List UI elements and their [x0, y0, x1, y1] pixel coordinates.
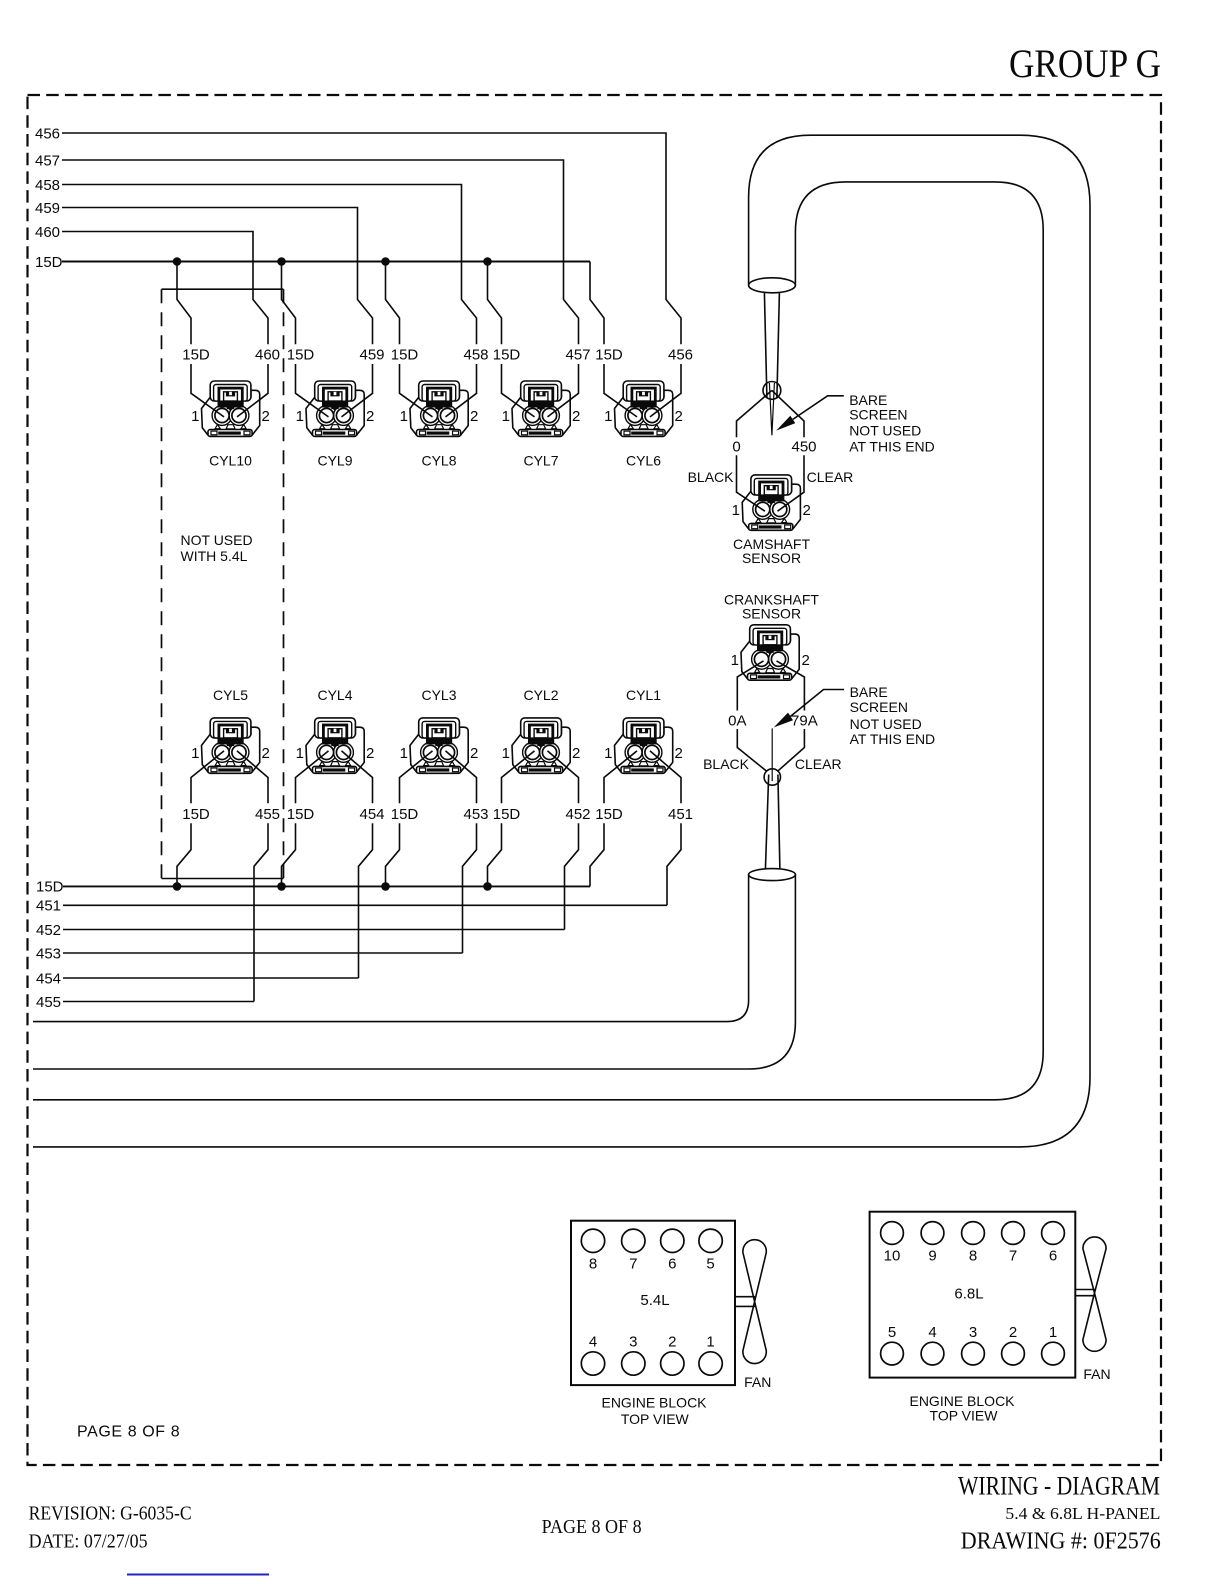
- injector connector CYL1: [604, 687, 683, 774]
- svg-text:452: 452: [565, 806, 590, 823]
- injector connector CYL10: [191, 381, 270, 469]
- svg-text:SCREEN: SCREEN: [850, 699, 908, 715]
- twisted pair from cable end to camshaft splice: [764, 293, 779, 398]
- svg-text:CYL6: CYL6: [626, 453, 661, 469]
- crankshaft sensor connector: [724, 591, 819, 680]
- wire 0 (camshaft pin 1, BLACK): [688, 390, 772, 511]
- svg-text:1: 1: [502, 408, 510, 425]
- svg-text:1: 1: [1049, 1324, 1057, 1341]
- svg-text:BLACK: BLACK: [703, 756, 750, 772]
- svg-text:CYL10: CYL10: [209, 453, 252, 469]
- svg-text:2: 2: [803, 502, 811, 519]
- svg-text:8: 8: [589, 1256, 597, 1273]
- svg-text:BARE: BARE: [850, 684, 888, 700]
- svg-text:CLEAR: CLEAR: [807, 469, 854, 485]
- wire 457 (to CYL7 pin 2): [35, 152, 591, 417]
- wire 15D branch from CYL4 pin 1: [277, 751, 328, 891]
- svg-text:456: 456: [35, 125, 60, 142]
- svg-text:1: 1: [296, 408, 304, 425]
- svg-text:15D: 15D: [35, 254, 63, 271]
- svg-text:460: 460: [255, 347, 280, 364]
- svg-text:SCREEN: SCREEN: [849, 407, 907, 423]
- svg-text:15D: 15D: [595, 806, 623, 823]
- engine block 5.4L top view: [571, 1221, 735, 1427]
- svg-text:2: 2: [470, 408, 478, 425]
- svg-text:15D: 15D: [493, 347, 521, 364]
- svg-text:1: 1: [400, 745, 408, 762]
- svg-text:3: 3: [969, 1324, 977, 1341]
- svg-text:1: 1: [400, 408, 408, 425]
- svg-text:458: 458: [463, 347, 488, 364]
- fan (6.8L): [1075, 1237, 1110, 1382]
- svg-text:459: 459: [359, 347, 384, 364]
- wire 15D branch from CYL2 pin 1: [483, 751, 534, 891]
- svg-text:CYL7: CYL7: [523, 453, 558, 469]
- box NOT USED WITH 5.4L: [162, 289, 284, 878]
- svg-text:DRAWING #: 0F2576: DRAWING #: 0F2576: [961, 1528, 1161, 1555]
- svg-text:15D: 15D: [182, 806, 210, 823]
- svg-text:451: 451: [36, 898, 61, 915]
- svg-text:SENSOR: SENSOR: [742, 550, 801, 566]
- crankshaft cable sheath (inner): [33, 875, 749, 1022]
- svg-text:1: 1: [502, 745, 510, 762]
- svg-text:CYL8: CYL8: [421, 453, 456, 469]
- svg-text:458: 458: [35, 177, 60, 194]
- wire 79A (crankshaft pin 2, CLEAR): [777, 661, 842, 772]
- annotation BARE SCREEN NOT USED AT THIS END (camshaft): [776, 392, 935, 455]
- injector connector CYL4: [296, 687, 375, 774]
- svg-text:0A: 0A: [728, 712, 746, 729]
- injector connector CYL6: [604, 381, 683, 469]
- svg-text:1: 1: [191, 408, 199, 425]
- svg-text:BLACK: BLACK: [688, 469, 735, 485]
- wire 453 from CYL3 pin 2: [446, 751, 489, 953]
- svg-text:1: 1: [731, 652, 739, 669]
- svg-text:FAN: FAN: [744, 1374, 771, 1390]
- annotation BARE SCREEN NOT USED AT THIS END (crankshaft): [774, 684, 935, 747]
- engine block 6.8L top view: [870, 1212, 1076, 1424]
- svg-text:SENSOR: SENSOR: [742, 605, 801, 621]
- svg-text:2: 2: [366, 745, 374, 762]
- svg-text:453: 453: [36, 945, 61, 962]
- svg-text:NOT USED: NOT USED: [181, 532, 253, 548]
- wire 456 (to CYL6 pin 2): [35, 125, 693, 417]
- svg-text:454: 454: [359, 806, 384, 823]
- wire 452 from CYL2 pin 2: [548, 751, 591, 930]
- svg-text:7: 7: [1009, 1248, 1017, 1265]
- svg-text:2: 2: [262, 408, 270, 425]
- wire 0A (crankshaft pin 1, BLACK): [703, 661, 767, 772]
- svg-text:6: 6: [1049, 1248, 1057, 1265]
- svg-text:15D: 15D: [595, 347, 623, 364]
- svg-text:CYL4: CYL4: [317, 687, 352, 703]
- svg-text:79A: 79A: [791, 712, 818, 729]
- svg-text:TOP VIEW: TOP VIEW: [930, 1408, 999, 1424]
- svg-text:AT THIS END: AT THIS END: [849, 439, 935, 455]
- wire 452 (bottom bus): [36, 922, 565, 939]
- svg-text:460: 460: [35, 224, 60, 241]
- wire 15D (top bus to CYL10..CYL6 pin 1): [35, 254, 637, 417]
- svg-text:GROUP G: GROUP G: [1009, 41, 1161, 86]
- wire 450 (camshaft pin 2, CLEAR): [772, 390, 853, 511]
- cable sheath loop (outer): [33, 135, 1090, 1147]
- svg-text:5: 5: [706, 1256, 714, 1273]
- svg-text:2: 2: [675, 745, 683, 762]
- svg-text:2: 2: [366, 408, 374, 425]
- svg-text:1: 1: [604, 745, 612, 762]
- svg-text:456: 456: [668, 347, 693, 364]
- svg-text:451: 451: [668, 806, 693, 823]
- svg-text:4: 4: [589, 1334, 597, 1351]
- svg-text:WITH 5.4L: WITH 5.4L: [181, 548, 248, 564]
- crankshaft cable sheath (outer): [33, 875, 795, 1069]
- svg-text:1: 1: [296, 745, 304, 762]
- svg-text:2: 2: [675, 408, 683, 425]
- svg-text:15D: 15D: [391, 347, 419, 364]
- injector connector CYL5: [191, 687, 270, 774]
- svg-text:6.8L: 6.8L: [954, 1286, 983, 1303]
- svg-text:7: 7: [629, 1256, 637, 1273]
- svg-text:CYL1: CYL1: [626, 687, 661, 703]
- svg-text:10: 10: [884, 1248, 901, 1265]
- wire 460 (to CYL10 pin 2): [35, 224, 280, 417]
- svg-text:15D: 15D: [182, 347, 210, 364]
- svg-text:WIRING - DIAGRAM: WIRING - DIAGRAM: [958, 1472, 1160, 1501]
- svg-text:2: 2: [470, 745, 478, 762]
- svg-text:15D: 15D: [36, 879, 64, 896]
- svg-text:6: 6: [668, 1256, 676, 1273]
- cable sheath loop (inner): [33, 182, 1043, 1100]
- svg-text:15D: 15D: [493, 806, 521, 823]
- svg-text:CYL5: CYL5: [213, 687, 248, 703]
- wire 454 (bottom bus): [36, 970, 359, 987]
- svg-text:REVISION: G-6035-C: REVISION: G-6035-C: [29, 1503, 192, 1525]
- wire 453 (bottom bus): [36, 945, 463, 962]
- svg-text:455: 455: [255, 806, 280, 823]
- svg-text:NOT USED: NOT USED: [850, 716, 922, 732]
- svg-text:1: 1: [732, 502, 740, 519]
- svg-text:2: 2: [262, 745, 270, 762]
- svg-text:459: 459: [35, 200, 60, 217]
- footer link line: [127, 1574, 269, 1576]
- svg-text:450: 450: [791, 439, 816, 456]
- svg-text:1: 1: [191, 745, 199, 762]
- svg-text:2: 2: [668, 1334, 676, 1351]
- svg-text:ENGINE BLOCK: ENGINE BLOCK: [601, 1395, 707, 1411]
- svg-text:1: 1: [706, 1334, 714, 1351]
- injector connector CYL3: [400, 687, 479, 774]
- svg-text:3: 3: [629, 1334, 637, 1351]
- svg-text:5: 5: [888, 1324, 896, 1341]
- svg-text:5.4 & 6.8L H-PANEL: 5.4 & 6.8L H-PANEL: [1005, 1504, 1160, 1523]
- wire 451 (bottom bus): [36, 898, 667, 915]
- bare screen splice (camshaft): [763, 382, 781, 400]
- wire 454 from CYL4 pin 2: [342, 751, 385, 978]
- svg-text:CYL3: CYL3: [421, 687, 456, 703]
- injector connector CYL8: [400, 381, 479, 469]
- svg-text:5.4L: 5.4L: [640, 1292, 669, 1309]
- svg-text:CYL9: CYL9: [317, 453, 352, 469]
- wire 455 (bottom bus): [36, 994, 254, 1011]
- cable end (crankshaft side): [749, 869, 796, 881]
- svg-text:CLEAR: CLEAR: [795, 756, 842, 772]
- svg-text:15D: 15D: [391, 806, 419, 823]
- svg-text:457: 457: [35, 152, 60, 169]
- injector connector CYL7: [502, 381, 581, 469]
- wire 459 (to CYL9 pin 2): [35, 200, 385, 417]
- injector connector CYL2: [502, 687, 581, 774]
- svg-text:0: 0: [732, 439, 740, 456]
- svg-text:PAGE 8 OF 8: PAGE 8 OF 8: [542, 1516, 642, 1538]
- svg-text:CYL2: CYL2: [523, 687, 558, 703]
- svg-text:15D: 15D: [287, 347, 315, 364]
- svg-text:2: 2: [802, 652, 810, 669]
- wire 15D branch from CYL1 pin 1: [590, 751, 637, 887]
- twisted pair from crankshaft splice to cable end: [765, 775, 780, 870]
- svg-text:DATE: 07/27/05: DATE: 07/27/05: [29, 1531, 148, 1553]
- svg-text:8: 8: [969, 1248, 977, 1265]
- svg-text:TOP VIEW: TOP VIEW: [621, 1411, 690, 1427]
- svg-text:NOT USED: NOT USED: [849, 423, 921, 439]
- wire 451 from CYL1 pin 2: [650, 751, 693, 905]
- svg-text:454: 454: [36, 970, 61, 987]
- wire 458 (to CYL8 pin 2): [35, 177, 489, 417]
- fan (5.4L): [735, 1240, 771, 1390]
- svg-text:4: 4: [928, 1324, 936, 1341]
- svg-text:452: 452: [36, 922, 61, 939]
- bare screen splice (crankshaft): [764, 769, 780, 785]
- svg-text:455: 455: [36, 994, 61, 1011]
- wire 455 from CYL5 pin 2: [237, 751, 280, 1002]
- svg-text:2: 2: [572, 745, 580, 762]
- svg-text:FAN: FAN: [1083, 1366, 1110, 1382]
- svg-text:15D: 15D: [287, 806, 315, 823]
- wire 15D branch from CYL3 pin 1: [381, 751, 432, 891]
- svg-text:2: 2: [572, 408, 580, 425]
- bare screen pigtail (crankshaft): [771, 728, 773, 781]
- wire 15D branch from CYL5 pin 1: [173, 751, 224, 891]
- camshaft sensor connector: [732, 475, 811, 566]
- wire 15D (bottom bus): [36, 879, 590, 896]
- cable end (camshaft side): [749, 278, 796, 293]
- svg-text:2: 2: [1009, 1324, 1017, 1341]
- svg-text:457: 457: [565, 347, 590, 364]
- svg-text:AT THIS END: AT THIS END: [850, 731, 936, 747]
- injector connector CYL9: [296, 381, 375, 469]
- svg-text:453: 453: [463, 806, 488, 823]
- svg-text:9: 9: [928, 1248, 936, 1265]
- bare screen pigtail (camshaft): [769, 383, 774, 435]
- svg-text:1: 1: [604, 408, 612, 425]
- svg-text:PAGE 8 OF 8: PAGE 8 OF 8: [77, 1424, 180, 1441]
